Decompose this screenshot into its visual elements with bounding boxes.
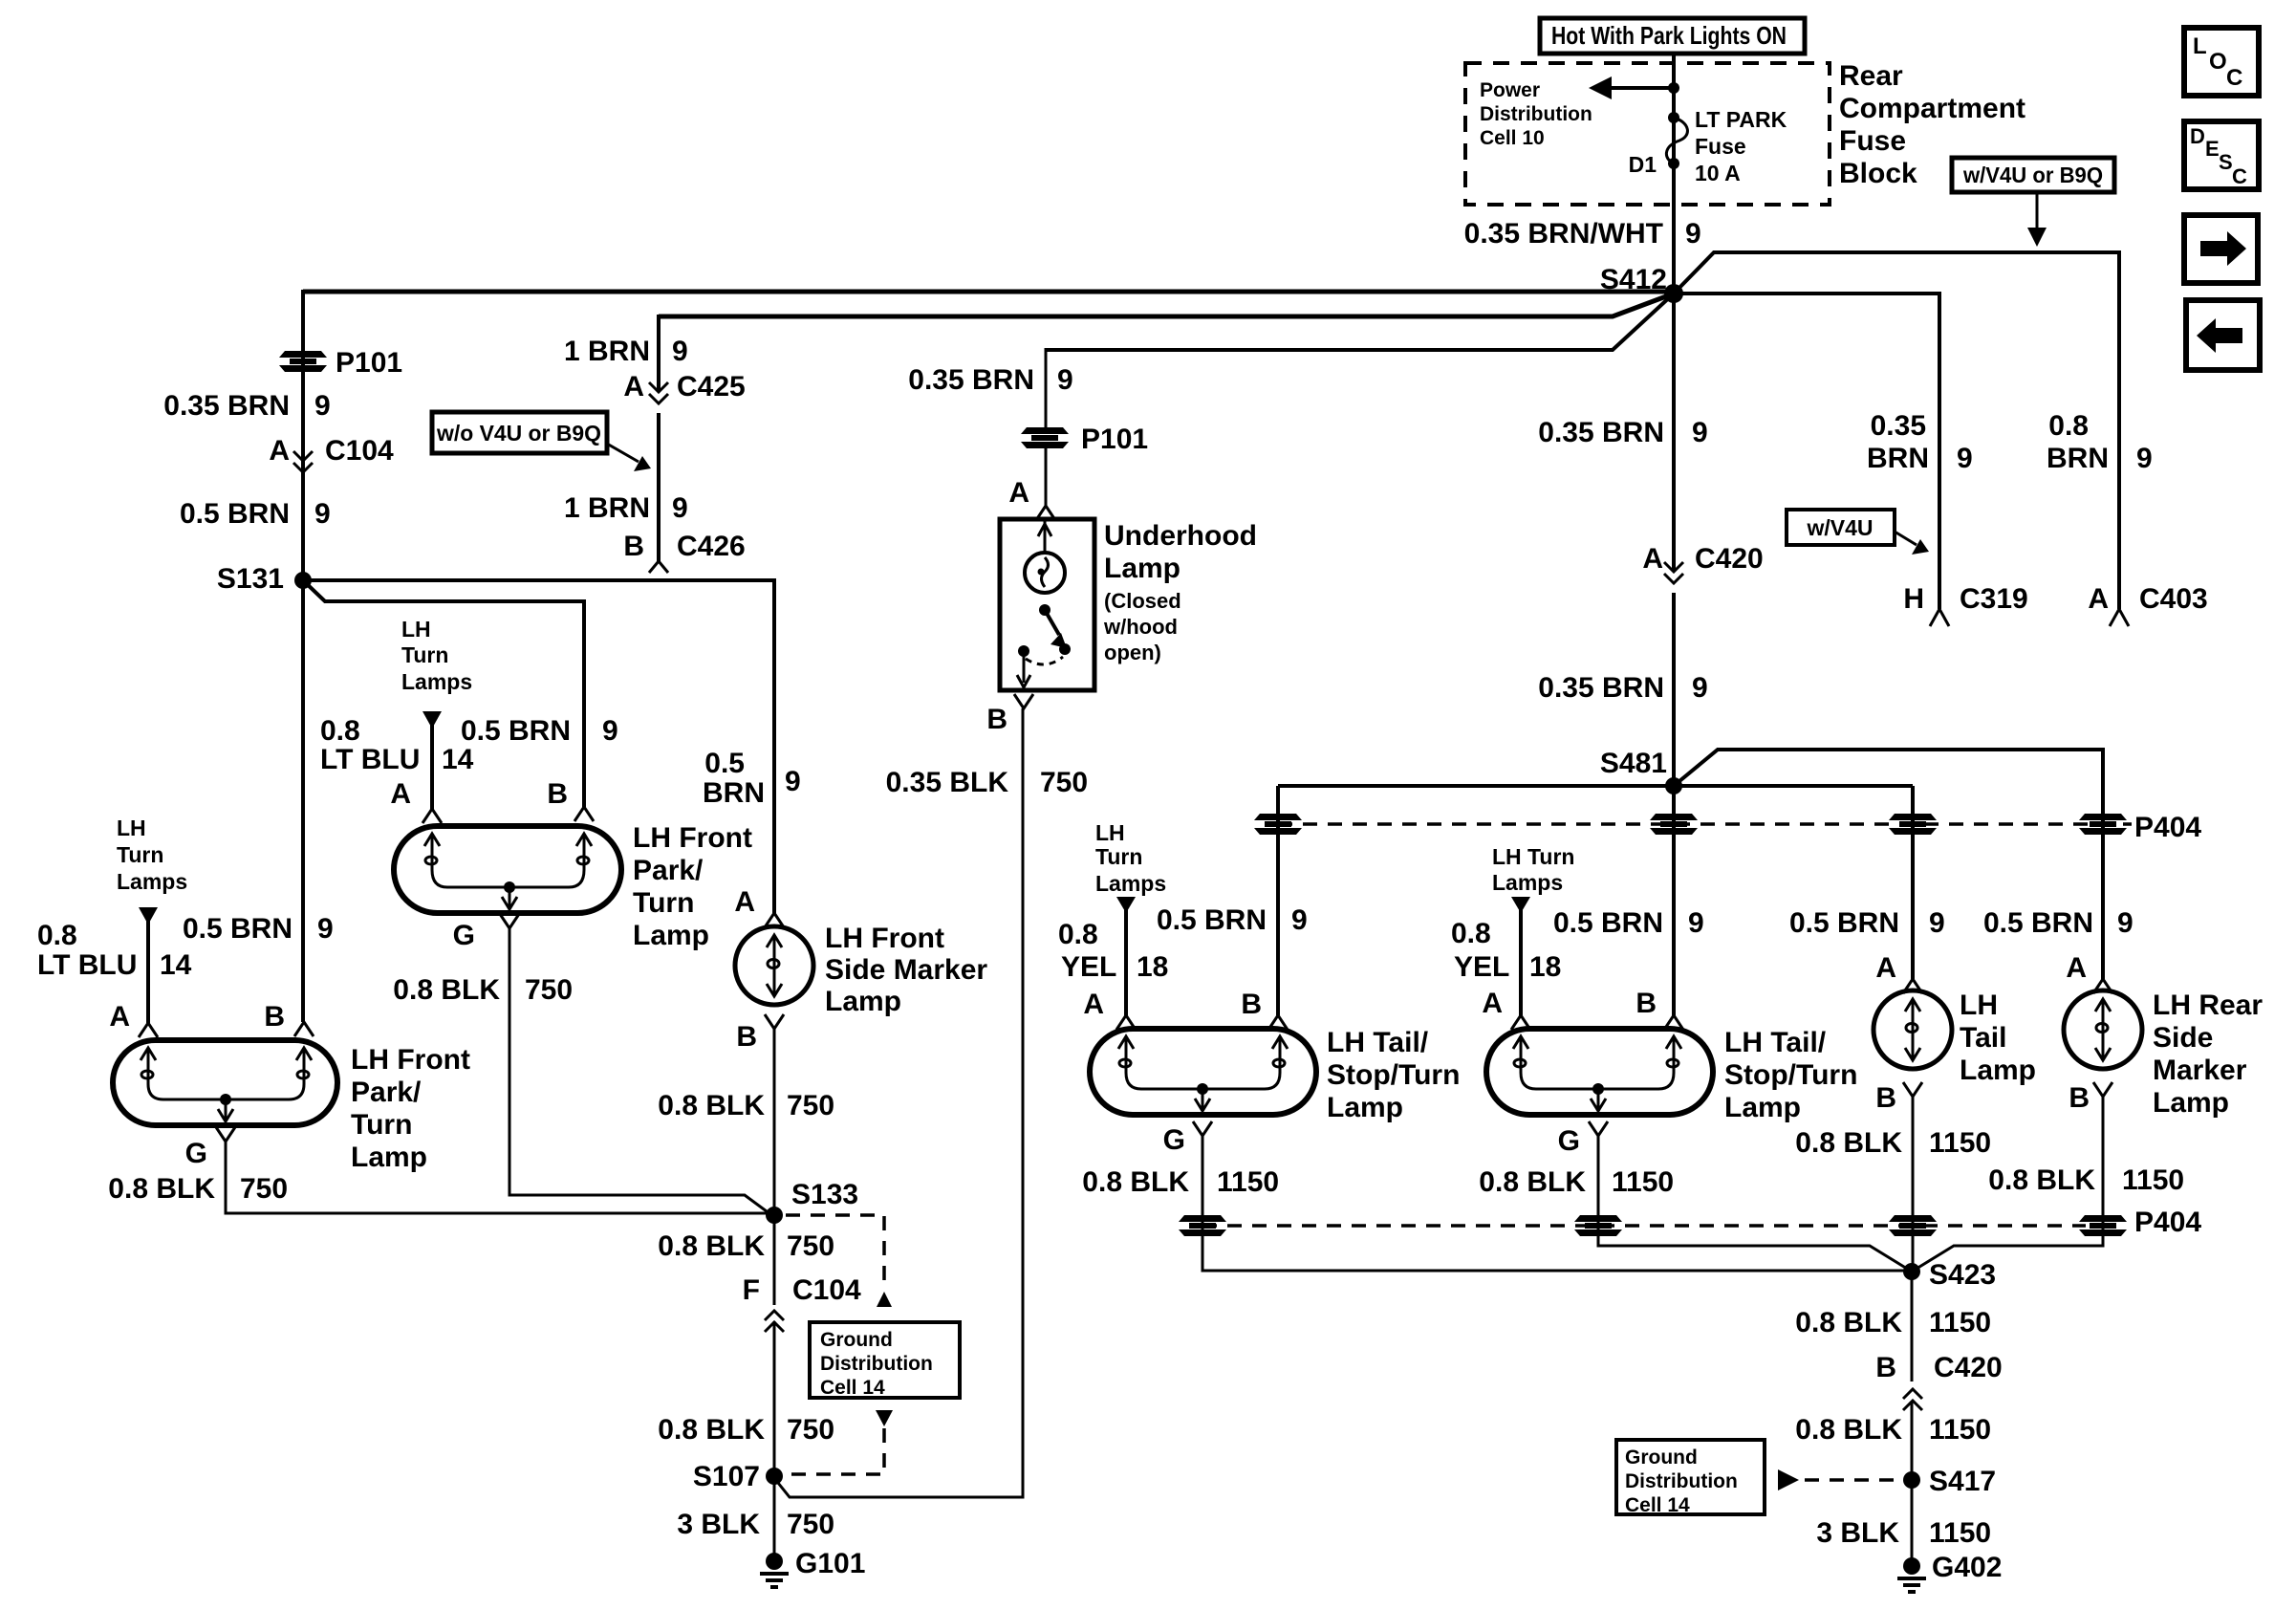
svg-text:Park/: Park/ <box>633 855 704 886</box>
svg-text:0.35 BRN/WHT: 0.35 BRN/WHT <box>1464 218 1663 250</box>
svg-text:C425: C425 <box>677 371 746 402</box>
svg-text:0.8 BLK: 0.8 BLK <box>658 1230 765 1262</box>
svg-text:0.5 BRN: 0.5 BRN <box>1983 907 2093 939</box>
svg-text:9: 9 <box>1685 218 1701 250</box>
svg-text:Lamp: Lamp <box>351 1142 427 1173</box>
svg-text:B: B <box>1241 989 1262 1020</box>
svg-text:LT BLU: LT BLU <box>320 744 420 775</box>
svg-text:A: A <box>1642 543 1663 575</box>
svg-text:C403: C403 <box>2139 583 2208 615</box>
svg-text:Power: Power <box>1480 79 1540 101</box>
svg-text:Park/: Park/ <box>351 1077 422 1108</box>
svg-text:LT BLU: LT BLU <box>37 949 137 981</box>
svg-text:P101: P101 <box>1081 424 1148 455</box>
svg-text:0.5 BRN: 0.5 BRN <box>1553 907 1663 939</box>
svg-text:9: 9 <box>314 390 331 422</box>
svg-text:A: A <box>2088 583 2109 615</box>
svg-text:LT PARK: LT PARK <box>1695 107 1787 132</box>
svg-text:0.8: 0.8 <box>2048 410 2089 442</box>
svg-text:Lamp: Lamp <box>1960 1055 2036 1086</box>
svg-text:BRN: BRN <box>703 777 765 809</box>
svg-text:LH Front: LH Front <box>351 1044 470 1076</box>
svg-text:F: F <box>743 1274 760 1306</box>
svg-text:9: 9 <box>314 498 331 530</box>
svg-text:w/o V4U or B9Q: w/o V4U or B9Q <box>436 421 601 446</box>
svg-text:9: 9 <box>1957 443 1973 474</box>
svg-text:YEL: YEL <box>1454 951 1509 983</box>
svg-text:BRN: BRN <box>2047 443 2109 474</box>
svg-text:LH Turn: LH Turn <box>1492 844 1574 869</box>
svg-text:Compartment: Compartment <box>1839 93 2025 124</box>
svg-text:9: 9 <box>785 766 801 797</box>
svg-text:Block: Block <box>1839 158 1917 189</box>
svg-text:C: C <box>2226 65 2242 91</box>
svg-text:Turn: Turn <box>633 887 694 919</box>
svg-text:0.8 BLK: 0.8 BLK <box>1479 1166 1586 1198</box>
svg-text:Side Marker: Side Marker <box>825 954 987 986</box>
svg-text:B: B <box>986 704 1007 735</box>
svg-text:LH Tail/: LH Tail/ <box>1724 1027 1827 1058</box>
svg-text:S: S <box>2219 150 2233 174</box>
svg-text:Turn: Turn <box>1095 844 1142 869</box>
svg-text:A: A <box>109 1001 130 1033</box>
svg-text:Lamps: Lamps <box>1095 871 1166 896</box>
svg-text:9: 9 <box>1291 904 1308 936</box>
svg-text:Marker: Marker <box>2153 1055 2247 1086</box>
svg-text:0.35 BRN: 0.35 BRN <box>1538 417 1664 448</box>
svg-text:LH Front: LH Front <box>633 822 752 854</box>
svg-text:10 A: 10 A <box>1695 161 1741 185</box>
svg-text:O: O <box>2209 49 2227 75</box>
svg-text:A: A <box>1875 952 1896 984</box>
svg-text:LH Tail/: LH Tail/ <box>1327 1027 1429 1058</box>
svg-text:LH Front: LH Front <box>825 923 944 954</box>
svg-text:B: B <box>2069 1082 2090 1114</box>
svg-text:1150: 1150 <box>1929 1307 1991 1338</box>
svg-text:Lamp: Lamp <box>825 986 901 1017</box>
svg-text:BRN: BRN <box>1867 443 1929 474</box>
svg-text:Stop/Turn: Stop/Turn <box>1724 1059 1857 1091</box>
svg-text:18: 18 <box>1529 951 1561 983</box>
svg-text:Fuse: Fuse <box>1839 125 1906 157</box>
svg-text:B: B <box>547 778 568 810</box>
svg-text:1150: 1150 <box>1929 1414 1991 1446</box>
svg-text:Cell 10: Cell 10 <box>1480 127 1545 149</box>
svg-text:Distribution: Distribution <box>1625 1470 1738 1492</box>
svg-text:Ground: Ground <box>1625 1447 1698 1469</box>
svg-text:750: 750 <box>787 1509 834 1540</box>
svg-text:0.5: 0.5 <box>704 748 745 779</box>
svg-text:0.8 BLK: 0.8 BLK <box>1082 1166 1189 1198</box>
svg-text:1150: 1150 <box>1929 1517 1991 1549</box>
svg-text:0.8: 0.8 <box>1058 919 1098 950</box>
svg-text:Turn: Turn <box>401 642 448 667</box>
svg-text:9: 9 <box>1057 364 1073 396</box>
svg-text:S133: S133 <box>791 1179 858 1210</box>
svg-text:0.35 BRN: 0.35 BRN <box>163 390 290 422</box>
svg-text:C: C <box>2232 164 2247 188</box>
svg-text:C420: C420 <box>1934 1352 2003 1383</box>
svg-text:3 BLK: 3 BLK <box>1816 1517 1899 1549</box>
svg-text:Fuse: Fuse <box>1695 134 1746 159</box>
svg-text:A: A <box>1008 477 1029 509</box>
svg-text:1150: 1150 <box>1612 1166 1674 1198</box>
svg-text:750: 750 <box>1040 767 1088 798</box>
svg-text:0.35 BLK: 0.35 BLK <box>886 767 1009 798</box>
svg-text:G: G <box>1163 1124 1185 1156</box>
svg-text:9: 9 <box>2136 443 2153 474</box>
svg-text:LH: LH <box>1095 820 1125 845</box>
svg-text:9: 9 <box>1929 907 1945 939</box>
svg-text:S423: S423 <box>1929 1259 1996 1291</box>
svg-text:P101: P101 <box>336 347 402 379</box>
svg-text:LH: LH <box>117 816 146 840</box>
svg-text:S481: S481 <box>1600 748 1667 779</box>
svg-text:Turn: Turn <box>117 842 163 867</box>
svg-text:G: G <box>453 920 475 951</box>
svg-text:0.8 BLK: 0.8 BLK <box>658 1090 765 1121</box>
svg-text:0.8: 0.8 <box>320 715 360 747</box>
svg-text:Lamp: Lamp <box>1104 553 1180 584</box>
svg-text:Rear: Rear <box>1839 60 1903 92</box>
svg-text:1 BRN: 1 BRN <box>564 492 650 524</box>
svg-text:Distribution: Distribution <box>1480 103 1592 125</box>
svg-text:P404: P404 <box>2134 1207 2201 1238</box>
svg-text:1150: 1150 <box>1929 1127 1991 1159</box>
svg-text:LH: LH <box>1960 990 1998 1021</box>
svg-text:750: 750 <box>240 1173 288 1205</box>
svg-text:Turn: Turn <box>351 1109 412 1141</box>
svg-text:0.8 BLK: 0.8 BLK <box>1795 1307 1902 1338</box>
svg-text:0.8 BLK: 0.8 BLK <box>1795 1414 1902 1446</box>
svg-text:G: G <box>1558 1125 1580 1157</box>
svg-text:Side: Side <box>2153 1022 2213 1054</box>
svg-text:S131: S131 <box>217 563 284 595</box>
svg-text:A: A <box>390 778 411 810</box>
svg-text:C426: C426 <box>677 531 746 562</box>
svg-text:Lamps: Lamps <box>401 669 472 694</box>
svg-text:Lamp: Lamp <box>1724 1092 1801 1123</box>
svg-text:9: 9 <box>2117 907 2134 939</box>
svg-text:C420: C420 <box>1695 543 1764 575</box>
svg-text:A: A <box>623 371 644 402</box>
svg-text:B: B <box>1875 1352 1896 1383</box>
svg-text:14: 14 <box>442 744 474 775</box>
svg-text:9: 9 <box>317 913 334 945</box>
svg-text:Lamp: Lamp <box>633 920 709 951</box>
svg-text:18: 18 <box>1137 951 1168 983</box>
svg-text:9: 9 <box>1692 417 1708 448</box>
svg-text:Lamps: Lamps <box>117 869 187 894</box>
svg-text:(Closed: (Closed <box>1104 589 1181 613</box>
svg-text:G: G <box>185 1138 207 1169</box>
svg-text:S417: S417 <box>1929 1466 1996 1497</box>
svg-text:G402: G402 <box>1932 1552 2002 1583</box>
svg-text:Cell 14: Cell 14 <box>820 1377 885 1399</box>
svg-text:750: 750 <box>787 1414 834 1446</box>
svg-text:B: B <box>623 531 644 562</box>
svg-text:0.8 BLK: 0.8 BLK <box>658 1414 765 1446</box>
svg-text:0.5 BRN: 0.5 BRN <box>183 913 292 945</box>
svg-text:A: A <box>734 886 755 918</box>
svg-text:Tail: Tail <box>1960 1022 2006 1054</box>
svg-text:Ground: Ground <box>820 1329 893 1351</box>
svg-text:9: 9 <box>1692 672 1708 704</box>
svg-text:YEL: YEL <box>1061 951 1116 983</box>
svg-text:Distribution: Distribution <box>820 1353 933 1375</box>
svg-text:Lamp: Lamp <box>2153 1087 2229 1119</box>
svg-text:G101: G101 <box>795 1548 865 1579</box>
svg-text:0.5 BRN: 0.5 BRN <box>461 715 571 747</box>
svg-text:0.8: 0.8 <box>37 920 77 951</box>
svg-text:w/V4U: w/V4U <box>1806 515 1873 540</box>
svg-text:3 BLK: 3 BLK <box>677 1509 760 1540</box>
svg-text:S107: S107 <box>693 1461 760 1492</box>
svg-text:LH: LH <box>401 617 431 642</box>
svg-text:0.5 BRN: 0.5 BRN <box>1157 904 1267 936</box>
svg-text:A: A <box>1482 988 1503 1019</box>
svg-text:Lamps: Lamps <box>1492 870 1563 895</box>
svg-text:Hot With Park Lights ON: Hot With Park Lights ON <box>1551 21 1787 50</box>
svg-text:Lamp: Lamp <box>1327 1092 1403 1123</box>
svg-text:A: A <box>269 435 290 467</box>
svg-text:B: B <box>1875 1082 1896 1114</box>
svg-text:E: E <box>2205 137 2220 161</box>
svg-text:B: B <box>1635 988 1657 1019</box>
svg-text:S412: S412 <box>1600 264 1667 295</box>
svg-text:0.8 BLK: 0.8 BLK <box>108 1173 215 1205</box>
svg-text:9: 9 <box>672 336 688 367</box>
svg-text:0.8 BLK: 0.8 BLK <box>1988 1164 2095 1196</box>
svg-text:D: D <box>2190 124 2205 148</box>
svg-text:0.8: 0.8 <box>1451 918 1491 949</box>
svg-text:B: B <box>736 1021 757 1053</box>
svg-text:0.35 BRN: 0.35 BRN <box>908 364 1034 396</box>
svg-text:1 BRN: 1 BRN <box>564 336 650 367</box>
svg-text:1150: 1150 <box>1217 1166 1279 1198</box>
svg-text:0.5 BRN: 0.5 BRN <box>180 498 290 530</box>
svg-text:750: 750 <box>525 974 573 1006</box>
svg-text:A: A <box>1083 989 1104 1020</box>
svg-text:0.8 BLK: 0.8 BLK <box>1795 1127 1902 1159</box>
svg-text:9: 9 <box>1688 907 1704 939</box>
svg-text:0.35: 0.35 <box>1871 410 1926 442</box>
svg-text:w/V4U or B9Q: w/V4U or B9Q <box>1962 163 2103 187</box>
svg-text:B: B <box>264 1001 285 1033</box>
svg-text:9: 9 <box>602 715 618 747</box>
svg-text:Underhood: Underhood <box>1104 520 1257 552</box>
svg-text:LH Rear: LH Rear <box>2153 990 2263 1021</box>
svg-text:P404: P404 <box>2134 812 2201 843</box>
svg-text:C104: C104 <box>792 1274 861 1306</box>
svg-text:C104: C104 <box>325 435 394 467</box>
svg-text:14: 14 <box>160 949 192 981</box>
svg-text:750: 750 <box>787 1090 834 1121</box>
svg-text:H: H <box>1903 583 1924 615</box>
svg-text:0.5 BRN: 0.5 BRN <box>1789 907 1899 939</box>
svg-text:D1: D1 <box>1629 152 1657 177</box>
svg-text:C319: C319 <box>1960 583 2028 615</box>
svg-text:L: L <box>2193 33 2207 59</box>
svg-text:Stop/Turn: Stop/Turn <box>1327 1059 1460 1091</box>
svg-text:A: A <box>2066 952 2087 984</box>
svg-text:Cell 14: Cell 14 <box>1625 1494 1690 1516</box>
svg-text:w/hood: w/hood <box>1103 615 1178 639</box>
svg-text:0.8 BLK: 0.8 BLK <box>393 974 500 1006</box>
svg-text:9: 9 <box>672 492 688 524</box>
svg-text:750: 750 <box>787 1230 834 1262</box>
svg-text:1150: 1150 <box>2122 1164 2184 1196</box>
svg-text:open): open) <box>1104 641 1161 664</box>
svg-text:0.35 BRN: 0.35 BRN <box>1538 672 1664 704</box>
